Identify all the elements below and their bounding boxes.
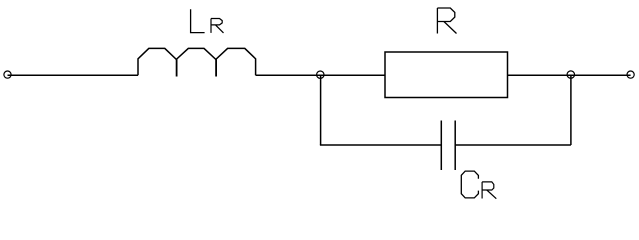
resistor R (box body) (385, 52, 508, 98)
wire: bottom branch right (455, 144, 571, 146)
wire: node A to resistor (320, 74, 385, 76)
label L of LR (191, 9, 205, 32)
wire: inductor to node A (256, 74, 321, 76)
wire: bottom branch left (320, 144, 441, 146)
label subscript R of CR (482, 182, 496, 199)
label C of CR (461, 171, 478, 198)
inductor core tick 1 (176, 59, 178, 76)
wire: node B to right terminal (571, 74, 631, 76)
terminal T1 (left input pin) (4, 71, 11, 78)
capacitor CR plate right (454, 121, 456, 171)
node A (junction circle, left) (317, 71, 324, 78)
wire: left terminal to inductor (8, 74, 139, 76)
capacitor CR plate left (440, 121, 442, 171)
label subscript R of LR (211, 19, 224, 33)
terminal T2 (right output pin) (627, 71, 634, 78)
label R of resistor (437, 8, 456, 34)
wire: resistor to node B (508, 74, 571, 76)
node B (junction circle, right) (567, 71, 574, 78)
wire: node A down to capacitor branch (320, 75, 322, 145)
inductor core tick 2 (215, 59, 217, 76)
inductor LR (angular three-hump coil) (138, 48, 256, 75)
wire: node B down to capacitor branch (570, 75, 572, 145)
